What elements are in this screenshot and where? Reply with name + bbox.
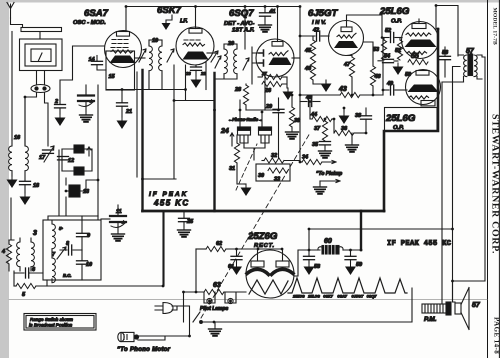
loop connector plug (25, 71, 50, 147)
B- arrow under R31 (241, 184, 252, 196)
resistor R36 (334, 119, 366, 136)
svg-text:PAGE 14-8: PAGE 14-8 (493, 317, 500, 354)
wires pot cluster drop (59, 149, 92, 216)
resistor R31 (234, 135, 244, 184)
dashed gang line long (201, 133, 310, 318)
capacitor C61 (231, 249, 242, 263)
svg-text:59: 59 (356, 262, 363, 268)
V2 grids (183, 40, 205, 46)
phono plug (118, 332, 139, 341)
svg-text:41: 41 (269, 9, 276, 15)
wire under V1 to C21 (107, 89, 186, 91)
loop antenna top bar (21, 28, 62, 32)
ground stub under R36 (346, 133, 359, 152)
svg-text:62: 62 (216, 241, 222, 247)
capacitor C59 (345, 250, 356, 263)
ground B- arrow under V2 cathode (191, 76, 202, 88)
capacitor C38 (361, 108, 372, 133)
svg-text:38: 38 (355, 113, 362, 119)
thin top feed to transformer (436, 6, 458, 57)
svg-text:“To Pickup: “To Pickup (316, 171, 342, 177)
svg-text:6SK7: 6SK7 (157, 5, 182, 16)
ground under R46 (321, 80, 332, 92)
range switch contact B (62, 167, 92, 175)
svg-text:MODEL 17-7B: MODEL 17-7B (492, 8, 498, 45)
svg-text:25Z6G: 25Z6G (247, 231, 278, 242)
V3 grid (269, 51, 288, 56)
capacitor C18 (20, 181, 31, 193)
wire left edge down (9, 198, 14, 286)
resistor R43 (300, 36, 383, 98)
svg-text:Range Switch shown: Range Switch shown (30, 317, 73, 322)
svg-text:I N V.: I N V. (312, 20, 326, 26)
svg-text:15: 15 (109, 74, 116, 80)
capacitor C41 (260, 7, 271, 23)
resistor R34 with arrow (300, 159, 336, 164)
svg-text:455 KC: 455 KC (153, 199, 190, 208)
output transformer T57 (458, 54, 485, 82)
svg-text:IF PEAK 455 KC: IF PEAK 455 KC (387, 240, 451, 248)
resistor R63 (185, 289, 246, 294)
pilot lamp 2 (225, 292, 236, 304)
thick bottom bus (143, 210, 385, 213)
svg-text:22: 22 (200, 71, 206, 76)
wire AC to lamp node (184, 291, 205, 293)
capacitor C52 (382, 33, 402, 43)
resistor R46 (310, 60, 321, 84)
op tube V1 6SA7 envelope (105, 31, 142, 68)
V2 pin stubs (205, 62, 207, 90)
svg-text:37: 37 (314, 126, 321, 132)
svg-text:45: 45 (304, 48, 312, 54)
AC plug (155, 303, 184, 314)
capacitor C9 (77, 216, 88, 250)
trimmer C17 (43, 146, 55, 162)
capacitor C29 (273, 98, 284, 158)
svg-text:21: 21 (125, 109, 132, 115)
resistor R48 (363, 42, 376, 95)
svg-text:25Z6G 25L6G 6SK7 6SA7: 25Z6G 25L6G 6SK7 6SA7 6J5GT 6SQ7 (292, 295, 377, 299)
trimmer arrow T19 right (167, 49, 174, 62)
resistor R5 on bottom wire (14, 211, 164, 289)
variable tuning capacitor C11 (osc) (101, 205, 126, 231)
capacitor C35 (320, 142, 331, 149)
V2 top cap (189, 7, 202, 34)
capacitor C21 (117, 90, 128, 118)
page divider line (9, 299, 487, 301)
V5 top cap (412, 19, 426, 29)
svg-text:42: 42 (312, 28, 319, 34)
resistor R39 (289, 95, 294, 129)
svg-text:11: 11 (116, 209, 122, 215)
svg-text:43: 43 (338, 86, 347, 93)
thick bus vertical left (141, 70, 143, 211)
svg-text:63: 63 (213, 282, 221, 289)
svg-text:O.P.: O.P. (391, 19, 402, 25)
ground under C25 (178, 227, 191, 237)
potentiometer P2 (259, 127, 272, 148)
heater box outline (201, 288, 412, 322)
trimmer 7 (57, 247, 66, 259)
svg-text:in Broadcast Position: in Broadcast Position (29, 323, 73, 328)
svg-text:57: 57 (466, 48, 475, 55)
wire V1 grid left (60, 46, 105, 104)
resistor R26 (262, 77, 287, 88)
svg-text:20: 20 (227, 41, 234, 47)
svg-text:35: 35 (312, 142, 319, 148)
resistor R53 (381, 38, 386, 61)
svg-text:19: 19 (152, 38, 159, 44)
antenna (7, 3, 14, 19)
svg-text:5•: 5• (59, 226, 63, 231)
capacitor C2 (55, 105, 66, 115)
V2 cathode capacitor C22 C23 (191, 65, 202, 76)
svg-text:26: 26 (264, 88, 272, 94)
svg-text:31: 31 (229, 166, 235, 172)
svg-text:48: 48 (374, 74, 382, 80)
svg-text:16: 16 (14, 135, 21, 141)
wire osc box top entry (82, 215, 98, 217)
wire x98 long vertical (97, 85, 99, 220)
svg-text:17: 17 (39, 155, 46, 161)
page rule right margin (488, 0, 500, 358)
range switch contact A (62, 145, 92, 153)
capacitor C54 (378, 59, 398, 62)
trimmer arrow T20 left (215, 56, 221, 68)
V4 grid (337, 33, 356, 38)
V5 cathode squiggle (407, 51, 427, 54)
wire V1 plate to T19 (135, 57, 146, 59)
svg-text:24: 24 (220, 128, 229, 135)
capacitor C49 (383, 85, 407, 95)
tube V2 6SK7 envelope (176, 27, 214, 65)
capacitor C40 (300, 97, 320, 107)
V6 grid rect lower (421, 101, 435, 106)
V2 plate (183, 52, 209, 60)
svg-text:27: 27 (261, 71, 267, 76)
V7 plate left (251, 249, 264, 267)
V6 grid cap (416, 71, 429, 76)
V4 top cap (341, 15, 382, 38)
ground B- arrow right of R28 (283, 88, 294, 100)
resistor R32 (262, 158, 300, 163)
tube V6 25L6G envelope (406, 70, 441, 105)
antenna coil T16 (9, 97, 29, 181)
svg-text:30: 30 (258, 173, 264, 179)
V3 top cap (272, 7, 283, 47)
wire V3 plate out (292, 57, 300, 59)
phono wires (138, 336, 190, 340)
V3 diode stems wire (252, 47, 259, 84)
tube V5 25L6G envelope (402, 22, 439, 59)
svg-text:29: 29 (265, 104, 273, 110)
wire transformer secondary down to speaker (442, 82, 464, 304)
wire left drop from antenna bar (11, 32, 13, 141)
dashed gang line short (236, 144, 257, 190)
wire long vertical x176 (174, 65, 215, 179)
B- arrow under C61 (231, 263, 242, 275)
svg-text:B.C.: B.C. (63, 273, 71, 278)
thick B+ bus staircase (384, 29, 438, 211)
box 30 33 (256, 164, 290, 181)
svg-text:STEWART-WARNER CORP.: STEWART-WARNER CORP. (490, 114, 500, 254)
svg-text:6SQ7: 6SQ7 (229, 8, 254, 19)
B+ line to screen (309, 228, 453, 230)
wire V2 plate out (207, 52, 216, 54)
resistor R62 (196, 246, 282, 292)
svg-text:32: 32 (271, 153, 277, 159)
svg-text:44: 44 (310, 112, 317, 118)
trimmer arrow T19 left (139, 49, 146, 62)
wire transformer tap (453, 67, 461, 303)
wire from top bus down to C42 (299, 7, 301, 37)
svg-text:“To Phono Motor: “To Phono Motor (117, 347, 171, 353)
ground B- arrow under T16 (7, 176, 18, 188)
svg-text:I.F.: I.F. (180, 19, 188, 25)
range switch note box (24, 314, 96, 331)
capacitor C8 (60, 245, 82, 255)
switch contact 13 (66, 180, 98, 197)
resistor R44 (310, 102, 334, 122)
filter choke L60 (318, 244, 361, 256)
V3 plate (269, 58, 292, 66)
capacitor C42 (300, 31, 329, 41)
thick bus vertical center (213, 73, 215, 211)
wire pot legs join (240, 143, 269, 160)
node at 383,37.5 (381, 36, 384, 39)
ground B- arrow under C21 (117, 117, 128, 129)
wire right outer drop (453, 57, 486, 281)
capacitor C6 (14, 268, 43, 278)
svg-text:52: 52 (385, 28, 391, 34)
pilot lamp 1 (204, 292, 215, 304)
AVC arrow under 6SK7 label (162, 15, 173, 30)
svg-text:10: 10 (86, 262, 92, 268)
svg-text:←Phono·Radio→: ←Phono·Radio→ (228, 117, 262, 122)
V1 top cap (117, 7, 130, 37)
svg-text:4: 4 (1, 249, 5, 255)
svg-text:3: 3 (33, 230, 37, 237)
V7 plate right (276, 249, 289, 267)
svg-text:IF PEAK: IF PEAK (149, 191, 188, 198)
svg-text:6SA7: 6SA7 (84, 8, 109, 19)
wire node x383 vertical (382, 38, 384, 96)
switch arrow (87, 147, 91, 156)
svg-text:33: 33 (274, 177, 280, 183)
wire antenna to loop (11, 18, 23, 28)
B- arrow under C58 (304, 263, 315, 275)
svg-text:14: 14 (89, 57, 95, 63)
tube V3 6SQ7 envelope (256, 39, 294, 77)
ground under R39 (286, 129, 299, 139)
svg-text:13: 13 (83, 189, 89, 195)
label box around 25L6G O.P. (385, 108, 438, 132)
tube V7 25Z6G envelope (246, 250, 294, 298)
svg-text:53: 53 (373, 47, 379, 53)
svg-text:18: 18 (33, 183, 40, 189)
svg-text:25L6G: 25L6G (385, 113, 416, 124)
B- black arrow mid (339, 112, 350, 124)
B- arrow under C18 (20, 193, 31, 205)
thin bus beside (136, 72, 138, 177)
V3 diode plates (259, 50, 264, 66)
ground under C11 (112, 231, 125, 241)
speaker voice coil (455, 303, 461, 314)
speaker magnet (422, 302, 451, 315)
box3 bottom wire to bus (46, 280, 48, 286)
outside coil pair left of box (17, 238, 35, 271)
resistor R55 (408, 59, 428, 64)
wiper arrow P1 (230, 133, 234, 146)
osc coil winding B (52, 258, 55, 283)
V1 shield box 15 (106, 51, 135, 90)
capacitor C10 (77, 250, 88, 280)
thick wire bus to choke (360, 211, 362, 250)
capacitor C12 (58, 157, 69, 160)
ground under variable capacitor (80, 112, 93, 122)
V1 grids (111, 40, 133, 54)
ground under pickup (314, 181, 327, 194)
trimmer arrow right of V2 (211, 51, 218, 62)
ground under C35 (319, 148, 332, 158)
B+ feed from C58 node (308, 229, 310, 250)
resistor R28 (243, 84, 248, 110)
speaker feed wires (453, 281, 456, 302)
V7 cathode swoosh left (247, 269, 269, 274)
variable tuning capacitor (RF section) (78, 85, 94, 112)
wire rect cathode to choke (294, 250, 320, 276)
oscillator coil box 3 (43, 220, 101, 280)
svg-text:54: 54 (384, 54, 390, 60)
svg-text:OSC - MOD.: OSC - MOD. (73, 20, 106, 26)
wire y216 (48, 197, 98, 220)
capacitor C14 (92, 56, 107, 71)
trimmer arrow T20 right (243, 58, 249, 70)
svg-text:P.M.: P.M. (424, 316, 437, 323)
ground B- arrow under C2 (55, 114, 66, 126)
V5 grid (406, 33, 431, 36)
resistor R37 (322, 119, 327, 141)
svg-text:36: 36 (341, 126, 348, 132)
B- arrow under C59 (345, 263, 356, 275)
svg-text:6J5GT: 6J5GT (308, 8, 338, 19)
capacitor C25 (179, 211, 190, 227)
V4 plate (334, 41, 358, 48)
svg-text:47: 47 (343, 62, 351, 68)
heater string zigzag (288, 278, 407, 293)
IF transformer T20 (215, 7, 246, 80)
loop antenna 1 spiral (20, 32, 63, 71)
svg-text:34: 34 (302, 155, 308, 161)
resistor R47 (346, 56, 355, 96)
ground on AC line (209, 322, 222, 336)
wire from V3 area down to volume pots (240, 100, 279, 127)
svg-text:60: 60 (324, 238, 332, 245)
speaker cone (461, 288, 469, 330)
svg-text:Pilot Lamps: Pilot Lamps (200, 306, 229, 312)
svg-text:51: 51 (395, 48, 401, 54)
ground under C41 (259, 22, 272, 32)
V6 cathode squiggle (409, 96, 429, 99)
capacitor C58 (304, 250, 315, 263)
V6 plate (408, 85, 439, 93)
svg-text:1ST A.F.: 1ST A.F. (232, 28, 255, 34)
pickup arrow (320, 180, 340, 183)
resistor R51 (397, 38, 402, 61)
wire x300 node (299, 95, 301, 162)
AC wires vertical pair (184, 292, 190, 336)
svg-text:46: 46 (304, 66, 312, 72)
V1 plate (110, 56, 136, 64)
resistor R27 (258, 74, 287, 79)
ground B- arrow near C54 (393, 63, 404, 75)
IF transformer T19 (149, 40, 162, 90)
svg-text:49: 49 (386, 81, 394, 87)
svg-text:2: 2 (54, 99, 58, 105)
svg-text:40: 40 (305, 95, 312, 101)
potentiometer P1 (238, 127, 251, 148)
svg-text:57: 57 (472, 302, 481, 309)
V7 cathode swoosh right (272, 269, 294, 274)
svg-text:25L6G: 25L6G (379, 6, 410, 17)
svg-text:12: 12 (68, 158, 74, 164)
svg-text:56: 56 (442, 50, 449, 56)
top bus wire (126, 6, 300, 8)
tube V4 6J5GT envelope (329, 21, 364, 56)
V5 plate (405, 40, 437, 48)
osc coil winding A (52, 220, 55, 258)
svg-text:58: 58 (314, 264, 321, 270)
resistor R4 (6, 240, 11, 271)
V3 pin stub (264, 76, 266, 110)
svg-text:DET - AVC-: DET - AVC- (224, 21, 254, 27)
resistor R45 (310, 36, 315, 60)
on-off switch lever (193, 312, 202, 323)
svg-text:28: 28 (234, 87, 242, 93)
V7 heater zigzag inside (249, 280, 288, 294)
IF peak box outline (143, 179, 177, 286)
capacitor C56 (440, 47, 451, 77)
svg-text:25: 25 (186, 219, 194, 225)
